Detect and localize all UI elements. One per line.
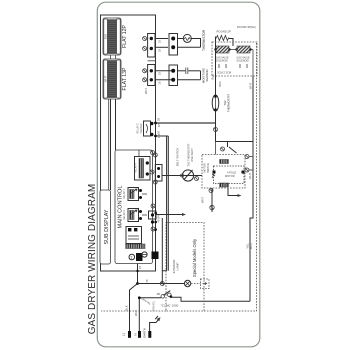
- svg-text:MOTOR: MOTOR: [203, 163, 207, 173]
- svg-text:RELAY 1: RELAY 1: [123, 189, 126, 199]
- wire stub down from interior lamp zone: [161, 218, 163, 271]
- wire WHT from FLAT13P down: [115, 99, 117, 150]
- switch at top: [229, 147, 237, 153]
- wires to thermistor connector: [155, 38, 168, 40]
- motor top feed wire: [216, 141, 254, 143]
- outer rounded page border: [97, 2, 259, 347]
- svg-text:SENSOR: SENSOR: [205, 69, 209, 81]
- thermistor TH: [179, 29, 207, 51]
- MAIN CONTROL box: [115, 150, 153, 264]
- console edge connector to drum line: [150, 165, 162, 182]
- relay block on console edge: [137, 121, 162, 138]
- svg-text:N: N: [134, 333, 138, 335]
- gas valve cluster: ROUND 2P resistor (igniter): [216, 25, 256, 50]
- motor winding SUB: [220, 183, 229, 187]
- wire BLK from FLAT13P down to SUB DISPLAY: [110, 99, 112, 190]
- wire console to heater thermostat: [156, 122, 216, 124]
- svg-text:ROUND 3P(NA): ROUND 3P(NA): [237, 25, 256, 29]
- MAIN CONTROL internals: relay 1: [123, 188, 147, 201]
- main horizontal wire to motor: [162, 175, 202, 177]
- svg-text:FLAT 13P: FLAT 13P: [122, 67, 128, 90]
- gas valve pin ticks: [219, 64, 247, 68]
- lamp feed terminal: [160, 282, 164, 286]
- svg-text:3B: 3B: [158, 118, 161, 121]
- svg-text:HEATER: HEATER: [140, 123, 143, 133]
- svg-text:SOLENOID: SOLENOID: [216, 59, 229, 62]
- solenoid link wires: [230, 49, 238, 51]
- svg-text:EARTH: EARTH: [143, 328, 147, 337]
- console box: [101, 15, 156, 271]
- wire N white: [139, 298, 161, 331]
- svg-text:ONE SHOT: ONE SHOT: [190, 148, 194, 162]
- arrow wire from control: [156, 213, 186, 216]
- gas valve solenoid 1: [214, 46, 230, 62]
- svg-text:2B: 2B: [157, 292, 161, 296]
- svg-text:4B: 4B: [139, 266, 142, 269]
- connector gap stubs: [110, 55, 112, 59]
- svg-text:LAMP: LAMP: [176, 262, 180, 270]
- junction dot: [136, 282, 139, 285]
- svg-text:1 3CM 2 3CM: 1 3CM 2 3CM: [215, 71, 231, 75]
- heater wire link with terminal: [214, 123, 218, 142]
- svg-text:GRN/YEL: GRN/YEL: [153, 300, 156, 311]
- svg-text:BLK: BLK: [211, 74, 215, 79]
- svg-text:2B: 2B: [159, 72, 162, 75]
- svg-text:WHT: WHT: [248, 173, 252, 180]
- motor bottom arrow: [228, 188, 242, 197]
- wire EARTH: [150, 323, 156, 332]
- moisture sensor wires + capacitors: [155, 65, 209, 86]
- svg-text:SUB DISPLAY: SUB DISPLAY: [104, 209, 110, 244]
- svg-text:WHT: WHT: [103, 76, 107, 83]
- motor bottom terminal: [201, 188, 215, 212]
- svg-text:37B: 37B: [158, 122, 161, 127]
- svg-text:WHT: WHT: [144, 88, 148, 94]
- wire loop right: [250, 76, 253, 301]
- svg-text:L1: L1: [122, 333, 126, 337]
- motor winding MAIN: [220, 160, 229, 164]
- svg-text:ROUND 2P: ROUND 2P: [217, 30, 232, 34]
- svg-text:Special Models Only: Special Models Only: [192, 238, 197, 277]
- gas valve dashed box: [212, 42, 257, 76]
- svg-text:*C( MC 1000: *C( MC 1000: [161, 304, 179, 308]
- long dashed boundary: [204, 42, 257, 311]
- power terminal N: [138, 331, 141, 338]
- svg-text:4 POLE: 4 POLE: [227, 171, 236, 175]
- gas valve solenoid 2: [235, 46, 251, 62]
- svg-text:WHT: WHT: [134, 310, 138, 316]
- motor box: [202, 147, 253, 193]
- thermostat TH2: [212, 94, 230, 112]
- MAIN CONTROL internals: relay 4 top cluster: [135, 150, 155, 180]
- ground arrow symbol: [155, 316, 160, 323]
- interior lamp feed wire: [138, 283, 185, 285]
- vertical wire pair mid: [166, 136, 168, 271]
- svg-text:WHT: WHT: [249, 83, 253, 90]
- connector FLAT 13P: [103, 59, 128, 99]
- MAIN CONTROL internals: relay 2: [123, 209, 147, 222]
- svg-text:BLK: BLK: [125, 305, 129, 310]
- svg-text:BLK: BLK: [103, 34, 107, 39]
- svg-text:4B: 4B: [146, 279, 149, 282]
- svg-text:BRN: BRN: [218, 81, 222, 87]
- svg-text:THERMOSTAT: THERMOSTAT: [226, 94, 230, 112]
- svg-text:2B: 2B: [159, 40, 162, 43]
- wire BLK from L1 up to junction: [130, 284, 138, 332]
- svg-text:WHT: WHT: [249, 243, 253, 250]
- svg-text:MOTOR: MOTOR: [225, 174, 235, 178]
- centrifugal switch mark: [212, 172, 215, 178]
- console terminals mid edge: [153, 153, 157, 231]
- connector FLAT 12P: [103, 18, 128, 55]
- Special Models Only dashed box: [166, 223, 204, 312]
- svg-text:3B: 3B: [159, 49, 162, 52]
- svg-text:WHT: WHT: [201, 197, 205, 203]
- console edge pin strip (moisture rows): [143, 65, 155, 94]
- svg-text:SWITCH: SWITCH: [206, 163, 210, 173]
- wire console to mid vertical pair: [156, 135, 169, 137]
- thermistor connector block: [169, 34, 179, 56]
- svg-text:2B: 2B: [159, 81, 162, 84]
- belt switch: [176, 143, 199, 181]
- svg-text:TH2: TH2: [223, 100, 227, 106]
- MAIN CONTROL right edge strip: [149, 204, 161, 231]
- door switch: [157, 291, 250, 302]
- wire from MAIN CONTROL to junction: [137, 264, 139, 284]
- console edge pin strip (rows 1-2): [143, 34, 155, 61]
- svg-text:37B: 37B: [158, 133, 161, 138]
- MAIN CONTROL internals: thermal fuse + black block: [129, 252, 159, 262]
- svg-text:3B: 3B: [158, 131, 161, 134]
- svg-text:RELAY 2: RELAY 2: [123, 210, 126, 220]
- svg-text:RELAY 4: RELAY 4: [135, 163, 138, 173]
- svg-text:FLAT 12P: FLAT 12P: [122, 25, 128, 48]
- MAIN CONTROL internals: transformer block: [126, 227, 146, 249]
- svg-text:THERMISTOR: THERMISTOR: [202, 29, 206, 51]
- svg-text:GAS DRYER WIRING DIAGRAM: GAS DRYER WIRING DIAGRAM: [87, 184, 98, 335]
- SUB DISPLAY box: [100, 190, 111, 264]
- wire down from gas box + TH3 thermostat label: [215, 50, 217, 96]
- svg-text:BELT SWITCH: BELT SWITCH: [176, 148, 180, 167]
- power terminal EARTH: [148, 331, 151, 338]
- svg-text:SOLENOID: SOLENOID: [237, 59, 250, 62]
- power terminal L1: [128, 331, 131, 338]
- interior lamp: [184, 279, 209, 289]
